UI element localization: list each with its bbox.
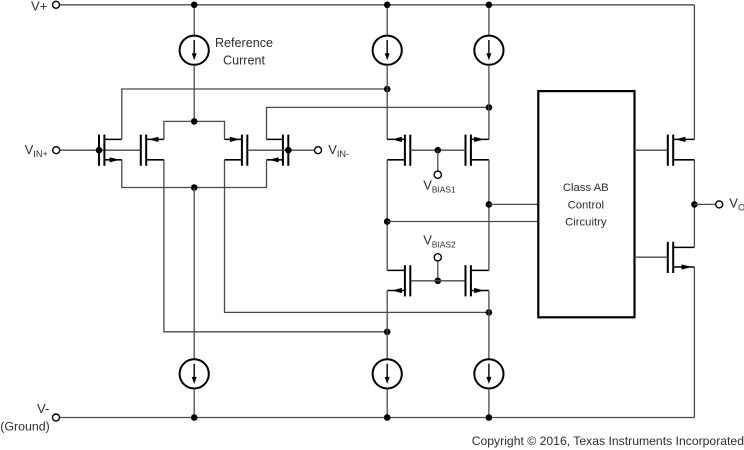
wire M7 source to I5 bbox=[386, 291, 388, 360]
svg-text:VIN+: VIN+ bbox=[25, 142, 48, 159]
wire I6 to rail bbox=[488, 389, 490, 418]
wire M5 source to M7 drain bbox=[386, 160, 388, 271]
wire box to M9 gate bbox=[634, 149, 667, 151]
current source I3 bbox=[474, 36, 503, 65]
wire I4 to rail bbox=[193, 389, 195, 418]
wire bridge inner pair drains bbox=[164, 121, 225, 139]
wire node F to box bbox=[489, 203, 539, 205]
wire VBIAS1 stub bbox=[437, 150, 439, 171]
V+ rail bbox=[60, 4, 695, 6]
wire M8 source to I6 bbox=[488, 291, 490, 360]
svg-text:VBIAS2: VBIAS2 bbox=[423, 232, 456, 249]
wire M2 source to node C bbox=[164, 160, 387, 332]
svg-text:Reference: Reference bbox=[215, 36, 273, 50]
node A bbox=[384, 86, 391, 93]
node F bbox=[486, 201, 493, 208]
svg-text:Circuitry: Circuitry bbox=[565, 216, 607, 228]
svg-text:Copyright © 2016, Texas Instru: Copyright © 2016, Texas Instruments Inco… bbox=[472, 434, 744, 448]
wire rail to I1 bbox=[193, 5, 195, 36]
node VO bbox=[691, 201, 698, 208]
node bottom rail I4 bbox=[191, 414, 198, 421]
wire M9 drain to M10 drain bbox=[693, 160, 695, 248]
current source I1 reference bbox=[180, 36, 209, 65]
current source I2 bbox=[373, 36, 402, 65]
node E bbox=[384, 218, 391, 225]
transistor M7 cascode NMOS left bbox=[387, 265, 410, 296]
current source I4 bbox=[180, 359, 209, 388]
node M1 gate bbox=[96, 147, 103, 154]
Class AB control box U1 bbox=[538, 91, 634, 317]
wire M1 drain to node A bbox=[122, 89, 387, 139]
wire VBIAS2 stub bbox=[437, 261, 439, 281]
current source I6 bbox=[474, 359, 503, 388]
wire M3 source to node D bbox=[225, 160, 489, 313]
wire VBIAS1 gates bbox=[410, 149, 465, 151]
wire I5 to rail bbox=[386, 389, 388, 418]
wire rail to I3 bbox=[488, 5, 490, 36]
wire I3 to M6 drain bbox=[488, 65, 490, 140]
V- terminal bbox=[53, 414, 60, 421]
wire M4 drain to node B bbox=[267, 107, 489, 139]
wire rail to I2 bbox=[386, 5, 388, 36]
wire M6 source to M8 drain bbox=[488, 160, 490, 271]
VBIAS2 terminal bbox=[434, 254, 441, 261]
wire M9 source to V+ rail bbox=[693, 5, 695, 140]
node top rail I2 bbox=[384, 2, 391, 9]
V+ terminal bbox=[53, 1, 60, 8]
VBIAS1 terminal bbox=[434, 171, 441, 178]
wire I2 to M5 drain bbox=[386, 65, 388, 140]
current source I5 bbox=[373, 359, 402, 388]
svg-text:(Ground): (Ground) bbox=[0, 420, 50, 434]
node top rail I3 bbox=[486, 2, 493, 9]
svg-text:Current: Current bbox=[223, 53, 265, 67]
transistor M8 cascode NMOS right bbox=[466, 265, 489, 296]
wire tail to I4 bbox=[193, 188, 195, 360]
svg-text:VIN-: VIN- bbox=[328, 142, 349, 159]
node bottom rail I5 bbox=[384, 414, 391, 421]
node tail bbox=[191, 184, 198, 191]
wire VIN+ to gates bbox=[60, 149, 141, 151]
svg-text:Class AB: Class AB bbox=[563, 182, 609, 194]
wire I1 to input pair tail node bbox=[193, 65, 195, 122]
node VBIAS2 bbox=[435, 278, 442, 285]
node bridge center bbox=[191, 118, 198, 125]
transistor M10 output NMOS bbox=[668, 242, 695, 273]
svg-text:VBIAS1: VBIAS1 bbox=[423, 178, 456, 195]
node C bbox=[384, 329, 391, 336]
node D bbox=[486, 309, 493, 316]
transistor M5 cascode PMOS left bbox=[387, 135, 410, 166]
svg-text:VO: VO bbox=[729, 195, 744, 212]
node VBIAS1 bbox=[435, 147, 442, 154]
transistor M9 output PMOS bbox=[668, 135, 695, 166]
wire VBIAS2 gates bbox=[410, 280, 465, 282]
svg-text:V-: V- bbox=[37, 401, 49, 416]
wire node E to box bbox=[387, 221, 538, 223]
node bottom rail I6 bbox=[486, 414, 493, 421]
V- rail bbox=[60, 417, 694, 419]
transistor M2 inner-left input bbox=[141, 135, 164, 166]
VO terminal bbox=[716, 201, 723, 208]
wire box to M10 gate bbox=[634, 256, 667, 258]
transistor M1 outer-left input bbox=[99, 135, 122, 166]
node M4 gate bbox=[285, 147, 292, 154]
VIN- terminal bbox=[315, 147, 322, 154]
VIN+ terminal bbox=[53, 147, 60, 154]
transistor M3 inner-right input bbox=[225, 135, 248, 166]
node B bbox=[486, 104, 493, 111]
transistor M6 cascode PMOS right bbox=[466, 135, 489, 166]
wire M10 source to V- rail bbox=[693, 267, 695, 418]
wire tail of outer pair bbox=[122, 160, 267, 188]
svg-text:Control: Control bbox=[568, 199, 604, 211]
wire VIN- to gates bbox=[247, 149, 314, 151]
svg-text:V+: V+ bbox=[31, 0, 47, 13]
transistor M4 outer-right input bbox=[267, 135, 289, 166]
node top rail I1 bbox=[191, 2, 198, 9]
wire VO bbox=[694, 203, 715, 205]
